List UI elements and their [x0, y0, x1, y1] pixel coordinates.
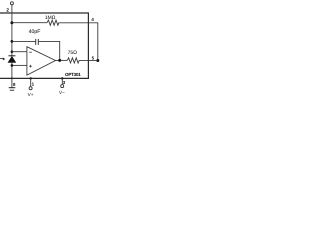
junction dot -input branch	[11, 50, 14, 53]
pin 2 terminal circle	[10, 2, 13, 5]
op-amp minus sign	[29, 51, 32, 53]
wire R1 to pin 4	[59, 23, 98, 61]
svg-text:75Ω: 75Ω	[68, 50, 78, 56]
wire node to capacitor C1	[12, 40, 36, 42]
pin 3 terminal circle	[61, 85, 64, 88]
svg-text:1MΩ: 1MΩ	[45, 15, 56, 21]
wire pin2 to inverting node	[11, 5, 13, 23]
feedback wire to resistor R1	[12, 22, 47, 24]
junction dot cap branch	[11, 40, 14, 43]
junction dot output/cap	[58, 59, 61, 62]
junction dot V- pin	[61, 77, 63, 79]
svg-text:2: 2	[6, 7, 9, 12]
wire +input	[12, 64, 27, 66]
photodiode triangle	[8, 56, 16, 62]
wire -input	[12, 51, 27, 53]
capacitor C1 40pF plates	[35, 39, 37, 45]
IC package outline U1 (left edge cropped)	[0, 13, 88, 78]
resistor R1 1MOhm zigzag	[47, 20, 59, 25]
wire op-amp output	[56, 59, 68, 61]
op-amp A1	[27, 47, 56, 75]
svg-text:40pF: 40pF	[29, 29, 41, 35]
junction dot +input branch	[11, 64, 14, 67]
svg-text:OPT301: OPT301	[65, 72, 81, 77]
junction dot common rail / diode	[11, 78, 13, 80]
photodiode cathode bar	[8, 55, 15, 57]
wire C1 to output branch	[38, 41, 59, 60]
op-amp plus sign	[29, 65, 32, 67]
wire to pin 1	[30, 78, 32, 86]
wire R2 to pin 5	[79, 59, 98, 61]
node: inverting input column	[11, 23, 13, 52]
junction dot V+ pin	[30, 77, 32, 79]
svg-text:V+: V+	[28, 92, 34, 97]
wire to ground pin 8	[11, 78, 13, 87]
junction dot feedback/output	[96, 59, 99, 62]
wire to pin 3	[61, 78, 63, 84]
wire diode anode	[11, 63, 13, 79]
pin 1 terminal circle	[29, 87, 32, 90]
photodiode D1	[11, 52, 13, 56]
light arrow	[0, 57, 3, 59]
ground symbol	[9, 87, 16, 89]
junction dot feedback node top	[10, 21, 13, 24]
background	[0, 0, 100, 100]
resistor R2 75Ohm zigzag	[67, 58, 79, 63]
svg-text:V−: V−	[59, 90, 65, 95]
